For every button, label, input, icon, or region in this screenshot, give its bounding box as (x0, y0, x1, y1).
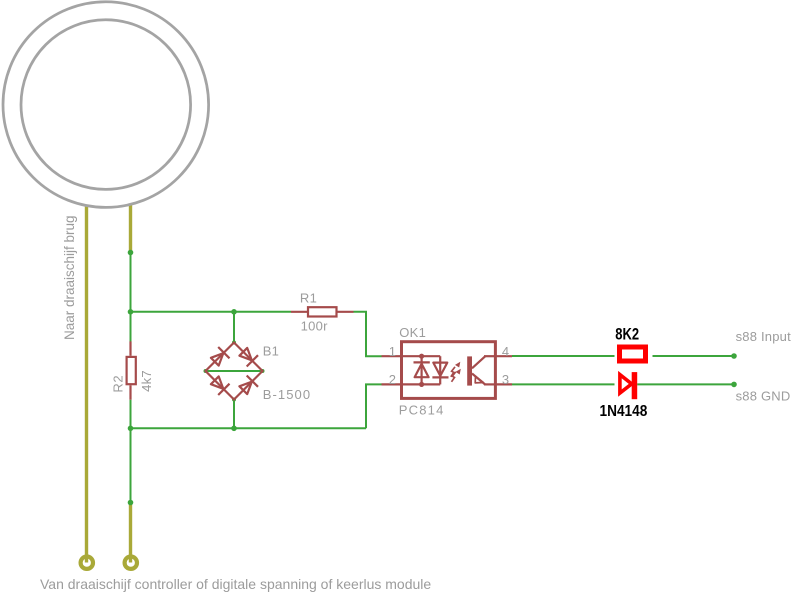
diode bottom-left (209, 375, 229, 395)
green vertical out of bridge bottom (233, 400, 235, 429)
pin 4 lead (496, 355, 513, 357)
pad left (81, 557, 93, 569)
bridge B1 (204, 309, 265, 431)
diode top-left (209, 347, 229, 367)
svg-text:R2: R2 (111, 375, 126, 393)
svg-text:2: 2 (389, 372, 396, 387)
svg-text:s88 GND: s88 GND (736, 388, 791, 403)
wire olive right lower (junction to pad) (129, 503, 132, 563)
wire green main vertical (130, 253, 132, 342)
junction dots (419, 354, 424, 359)
resistor R1 (291, 307, 354, 316)
resistor R2 (127, 341, 136, 399)
svg-text:PC814: PC814 (399, 402, 445, 417)
svg-text:4k7: 4k7 (139, 370, 154, 392)
svg-text:3: 3 (502, 372, 509, 387)
box (402, 342, 496, 399)
wire olive left (turntable to pad) (85, 205, 88, 563)
turntable circle outer (3, 2, 209, 208)
svg-text:Van draaischijf controller of: Van draaischijf controller of digitale s… (40, 576, 431, 592)
wire green bottom bus (131, 427, 367, 429)
svg-text:B-1500: B-1500 (263, 387, 312, 402)
junction dot bottom bus (128, 426, 134, 432)
svg-text:R1: R1 (300, 291, 317, 306)
turntable circle inner (21, 20, 191, 190)
LED down (right) (433, 363, 447, 376)
left rail (421, 356, 423, 384)
svg-text:1N4148: 1N4148 (600, 403, 648, 420)
junction dot top olive/green (128, 250, 134, 256)
wire green s88 gnd line (512, 383, 615, 385)
wire green top bus (131, 311, 292, 313)
internal bottom lead (402, 383, 441, 385)
green horizontal across bridge (206, 370, 263, 372)
junction dot bottom olive/green (128, 500, 134, 506)
LED up (left) (415, 364, 429, 378)
collector line (472, 356, 485, 368)
op-amp OK1 optocoupler (382, 342, 513, 399)
wire olive right upper (turntable to junction) (129, 205, 132, 253)
wire green R1 to OK1 pin1 (354, 312, 382, 356)
svg-text:B1: B1 (263, 344, 280, 359)
wire green below R2 (130, 400, 132, 503)
green vertical into bridge top (233, 312, 235, 343)
pad right (125, 557, 137, 569)
junction dot top bus (128, 309, 134, 315)
emitter line with arrow (472, 374, 485, 385)
wire green OK1 pin2 to bottom bus (366, 384, 382, 428)
svg-text:100r: 100r (301, 319, 329, 334)
phototransistor base bar (467, 356, 472, 385)
light arrow 2 (452, 369, 461, 382)
internal top lead (402, 355, 441, 357)
end dot s88 input (731, 353, 737, 359)
svg-text:Naar draaischijf brug: Naar draaischijf brug (62, 215, 77, 340)
diode bottom-right (238, 375, 258, 395)
pin 2 lead (382, 383, 401, 385)
diode 1N4148 (620, 372, 637, 399)
svg-text:4: 4 (502, 344, 509, 359)
svg-text:1: 1 (389, 344, 396, 359)
svg-text:s88 Input: s88 Input (736, 329, 791, 344)
svg-text:OK1: OK1 (399, 325, 426, 340)
right rail (439, 356, 441, 384)
wire green s88 input line (512, 355, 615, 357)
diode top-right (238, 346, 258, 366)
pin 3 lead (496, 383, 513, 385)
resistor 8K2 (620, 347, 646, 361)
pin 1 lead (382, 355, 401, 357)
light arrow 1 (451, 362, 461, 377)
svg-text:8K2: 8K2 (615, 325, 639, 343)
end dot s88 gnd (731, 382, 737, 388)
diamond edges (206, 343, 263, 400)
